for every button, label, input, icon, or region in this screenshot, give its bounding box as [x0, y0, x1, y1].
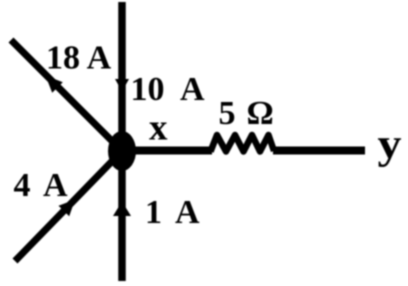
svg-text:y: y [378, 122, 402, 168]
wire: resistor to terminal y [273, 147, 365, 155]
arrowhead: 4 A current direction (up-right into node) [59, 200, 76, 217]
wire: 18 A branch (upper-left diagonal into node x) [11, 40, 122, 151]
svg-text:4: 4 [14, 167, 31, 204]
wire: 10 A branch (vertical, top of node x) [118, 2, 126, 151]
svg-text:A: A [180, 71, 205, 108]
arrowhead: 10 A current direction (downward into node) [115, 79, 129, 92]
resistor R 5 ohm (zigzag) [211, 135, 275, 152]
svg-text:A: A [43, 167, 68, 204]
svg-text:18 A: 18 A [46, 40, 112, 77]
junction node x (solid dot) [108, 131, 136, 171]
svg-text:x: x [149, 108, 168, 149]
arrowhead: 18 A current direction (up-left, out of node) [46, 76, 63, 93]
arrowhead: 1 A current direction (upward into node) [113, 202, 131, 217]
svg-text:10: 10 [131, 71, 165, 108]
wire: node x to resistor [122, 147, 212, 155]
svg-text:Ω: Ω [247, 95, 274, 132]
wire: 1 A branch (vertical, below node x) [118, 151, 126, 281]
svg-text:A: A [175, 194, 200, 231]
wire: 4 A branch (lower-left diagonal into node x) [15, 151, 122, 261]
svg-text:1: 1 [145, 194, 162, 231]
svg-text:5: 5 [219, 95, 236, 132]
